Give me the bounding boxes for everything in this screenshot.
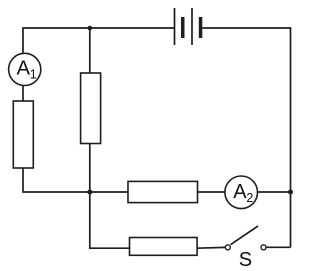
wire: top junction down to resistor R2	[89, 28, 91, 73]
ammeter A2 circle	[225, 176, 258, 209]
svg-text:S: S	[239, 249, 252, 271]
wire: battery to top-right corner and down right side	[202, 28, 290, 247]
label A2	[233, 181, 253, 205]
svg-text:A: A	[233, 181, 247, 203]
battery B1 left short thick plate	[181, 17, 185, 38]
switch S blade	[231, 226, 258, 245]
label S	[239, 249, 252, 271]
resistor R4 (bottom horizontal)	[130, 238, 198, 256]
wire: R2 bottom to centre junction	[89, 144, 91, 193]
wire: A1 bottom to resistor R1	[22, 86, 24, 102]
wire: R1 bottom down and right to centre junction	[23, 168, 90, 192]
junction node dot on top wire	[88, 26, 93, 31]
battery B1 left long plate	[174, 8, 176, 45]
svg-text:2: 2	[246, 191, 253, 205]
wire: centre junction down and right to resistor R4	[90, 192, 130, 248]
battery B1 right short thick plate	[199, 17, 203, 38]
junction node dot right	[288, 190, 293, 195]
label A1	[17, 58, 37, 82]
wire: top-left run from A1 top up and right to battery	[23, 28, 174, 54]
resistor R2 (middle vertical)	[81, 73, 101, 144]
switch S right contact	[261, 245, 266, 250]
resistor R3 (horizontal, in series with A2)	[128, 181, 198, 202]
ammeter A1 circle	[9, 53, 41, 85]
wire: R4 to switch left contact	[197, 246, 225, 249]
switch S left contact	[225, 245, 230, 250]
junction node dot centre	[87, 190, 92, 195]
wire: R3 to ammeter A2	[198, 191, 226, 193]
battery B1 right long plate	[191, 8, 193, 45]
wire: A2 to right junction	[258, 191, 291, 193]
wire: centre junction to resistor R3	[90, 191, 128, 193]
wire: switch right contact to bottom-right corner	[266, 246, 290, 248]
resistor R1 (left vertical)	[13, 101, 33, 168]
svg-text:1: 1	[30, 67, 37, 81]
svg-text:A: A	[17, 58, 31, 80]
